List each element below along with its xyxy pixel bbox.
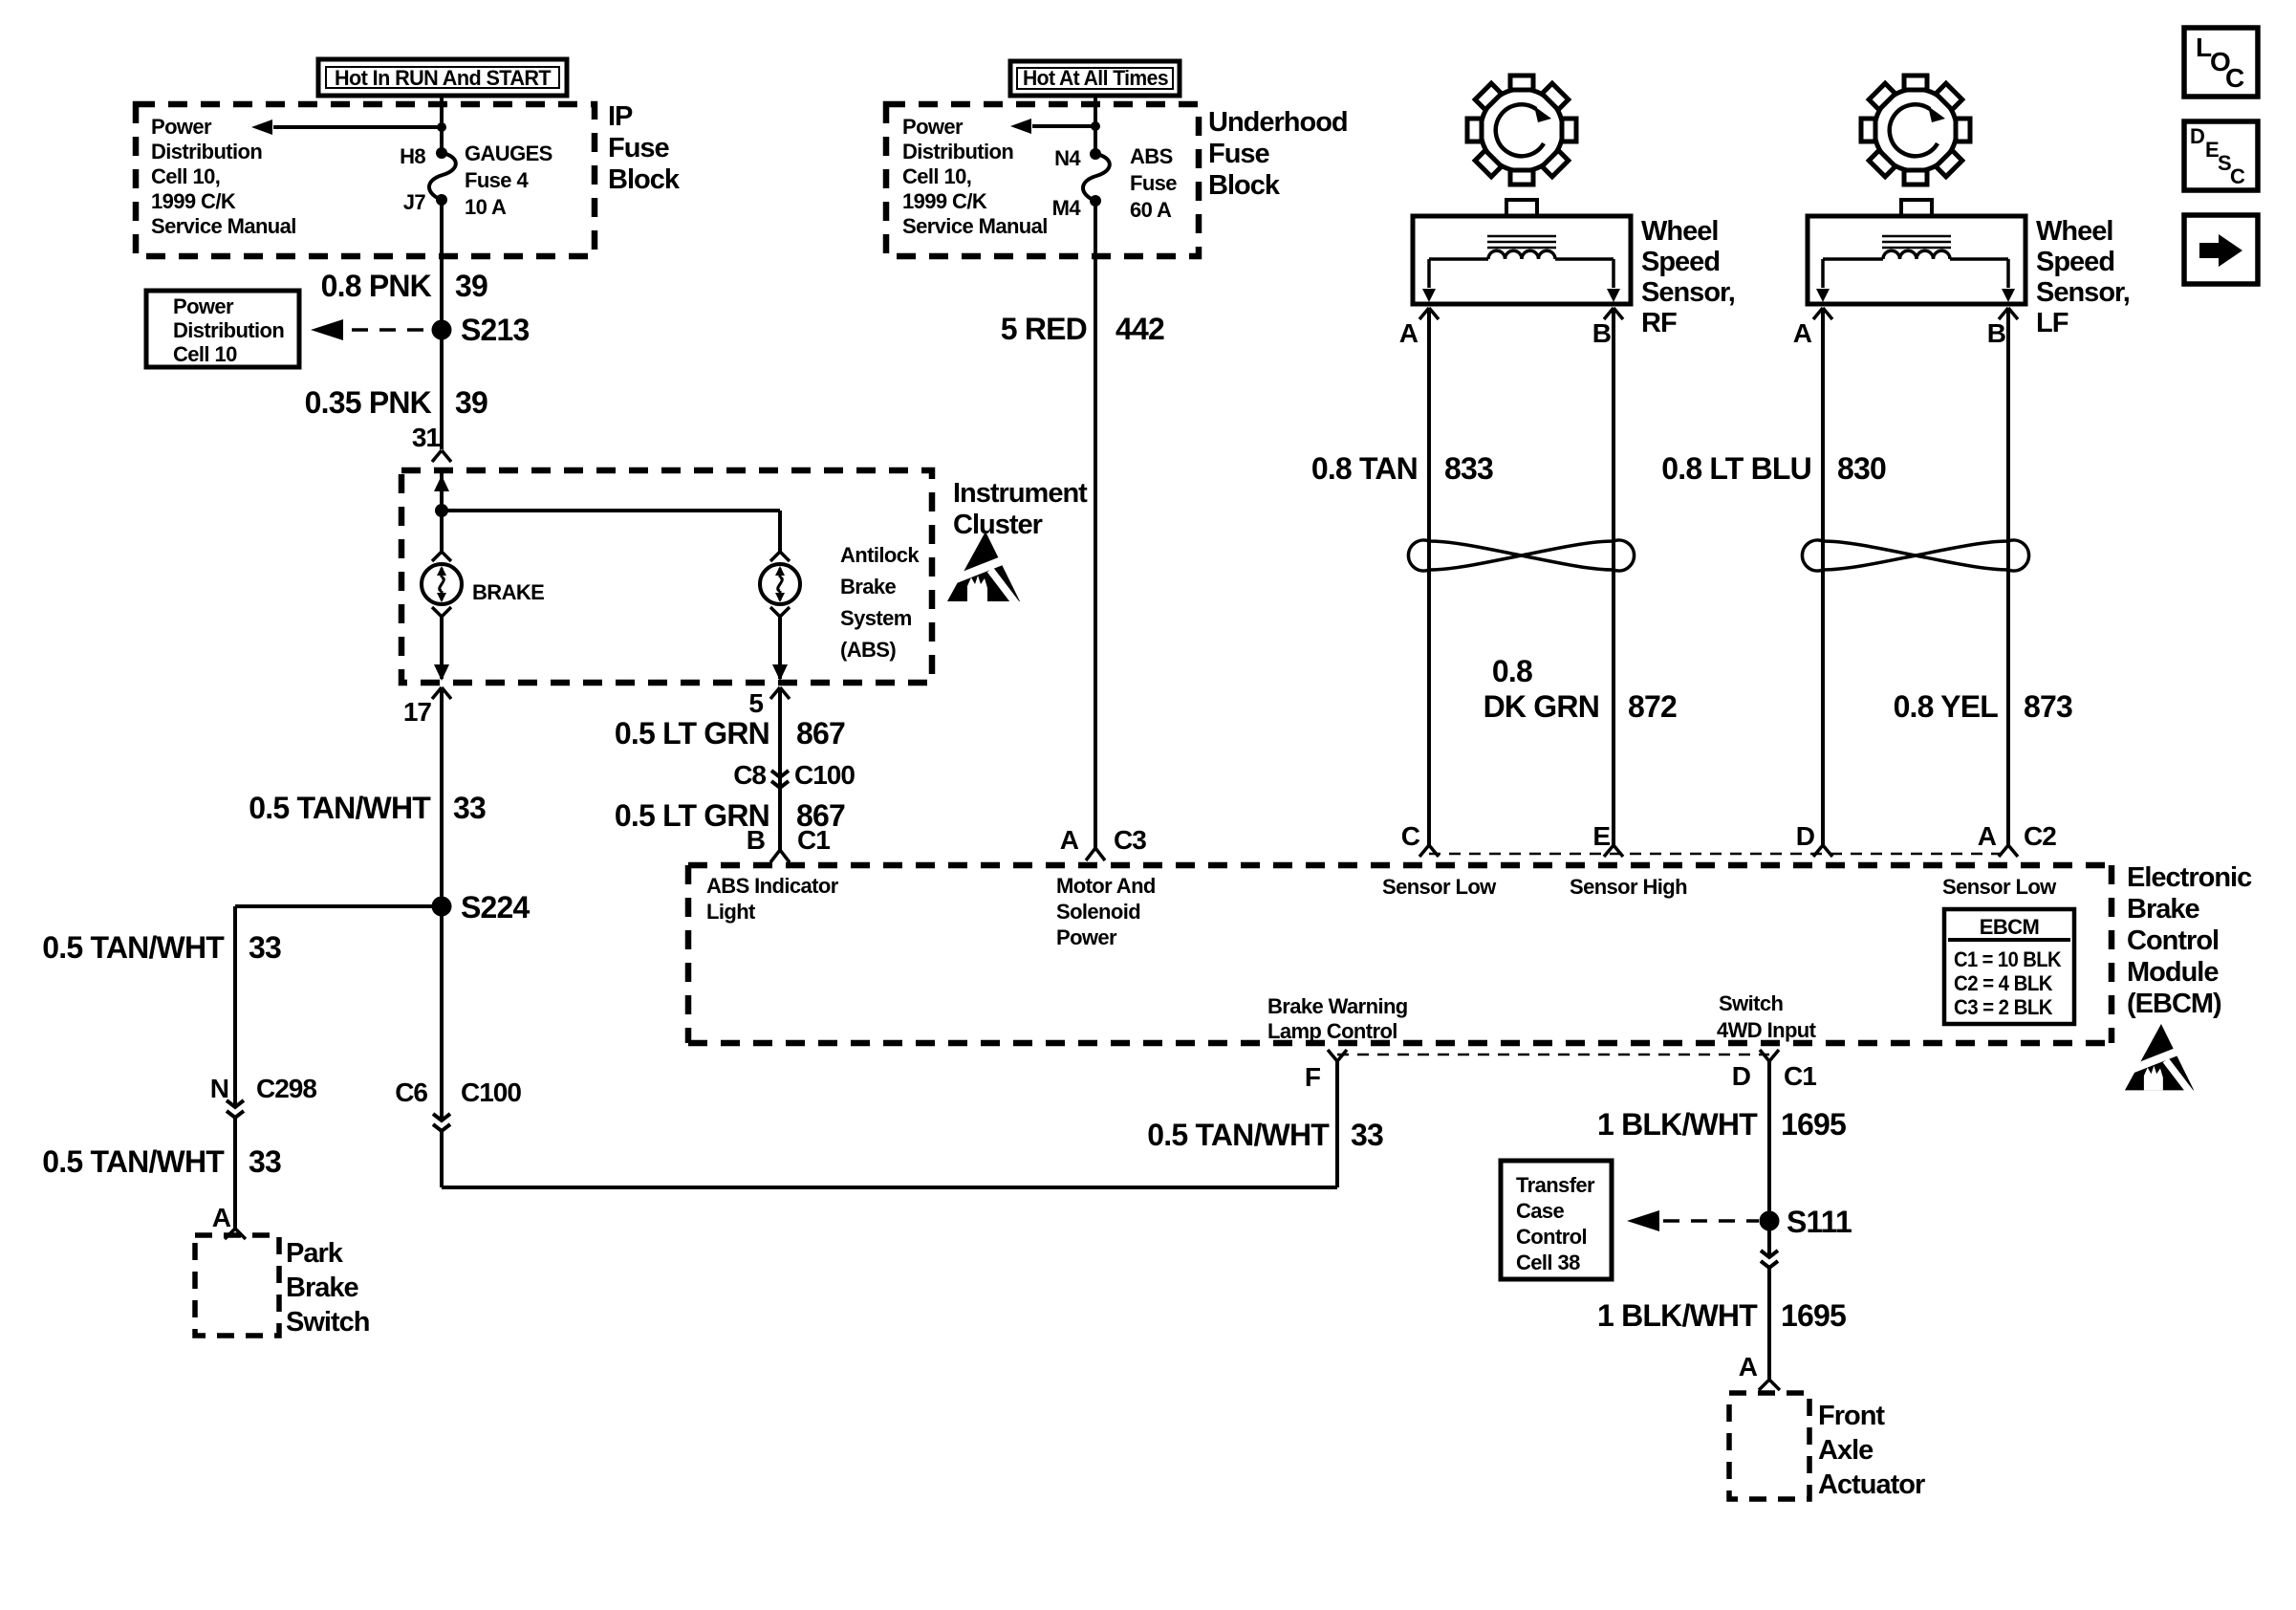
svg-text:(ABS): (ABS)	[840, 638, 896, 662]
svg-text:4WD Input: 4WD Input	[1717, 1018, 1817, 1042]
svg-text:Electronic: Electronic	[2127, 862, 2252, 893]
svg-text:IP: IP	[608, 101, 633, 132]
svg-text:System: System	[840, 606, 912, 630]
svg-text:D: D	[2190, 124, 2204, 148]
svg-text:B: B	[747, 825, 765, 855]
svg-text:EBCM: EBCM	[1980, 915, 2039, 939]
svg-text:BRAKE: BRAKE	[472, 580, 544, 604]
svg-text:ABS: ABS	[1130, 144, 1173, 168]
svg-text:Brake Warning: Brake Warning	[1267, 994, 1408, 1018]
svg-text:0.5 TAN/WHT: 0.5 TAN/WHT	[42, 1144, 225, 1179]
svg-text:Distribution: Distribution	[902, 140, 1013, 163]
svg-text:0.5 TAN/WHT: 0.5 TAN/WHT	[42, 930, 225, 965]
svg-text:Hot In RUN And START: Hot In RUN And START	[335, 66, 552, 90]
svg-text:Sensor Low: Sensor Low	[1942, 875, 2057, 899]
svg-text:Lamp Control: Lamp Control	[1267, 1019, 1397, 1043]
svg-text:Cell 10,: Cell 10,	[902, 164, 971, 188]
svg-text:33: 33	[453, 791, 486, 825]
svg-text:A: A	[1060, 825, 1079, 855]
svg-text:S: S	[2218, 151, 2231, 175]
svg-text:C1: C1	[797, 825, 830, 855]
svg-text:872: 872	[1628, 689, 1677, 724]
svg-text:1999 C/K: 1999 C/K	[151, 189, 236, 213]
svg-text:C3: C3	[1114, 825, 1146, 855]
svg-text:S224: S224	[461, 890, 531, 925]
svg-text:Front: Front	[1818, 1401, 1885, 1431]
svg-text:LF: LF	[2036, 308, 2069, 338]
svg-text:Speed: Speed	[1641, 247, 1720, 277]
svg-text:0.8 TAN: 0.8 TAN	[1311, 451, 1418, 486]
svg-text:C2 = 4 BLK: C2 = 4 BLK	[1954, 971, 2053, 995]
svg-text:33: 33	[1351, 1118, 1383, 1152]
svg-text:S213: S213	[461, 313, 530, 347]
svg-text:Switch: Switch	[1719, 991, 1783, 1015]
svg-text:Actuator: Actuator	[1818, 1469, 1925, 1500]
svg-text:Antilock: Antilock	[840, 543, 920, 567]
svg-text:C298: C298	[256, 1074, 316, 1103]
svg-text:C100: C100	[794, 760, 855, 790]
svg-text:C3 = 2 BLK: C3 = 2 BLK	[1954, 995, 2053, 1019]
svg-text:Block: Block	[608, 164, 681, 195]
svg-text:C1: C1	[1784, 1061, 1816, 1091]
svg-text:A: A	[1978, 821, 1997, 851]
svg-text:C: C	[1401, 821, 1420, 851]
svg-text:10 A: 10 A	[465, 195, 507, 219]
svg-text:H8: H8	[400, 144, 425, 168]
svg-text:Fuse: Fuse	[1130, 171, 1177, 195]
svg-text:Light: Light	[706, 900, 756, 924]
svg-text:Distribution: Distribution	[151, 140, 262, 163]
svg-text:Park: Park	[286, 1238, 344, 1269]
svg-text:E: E	[2205, 138, 2219, 162]
svg-text:Sensor High: Sensor High	[1570, 875, 1687, 899]
svg-text:C6: C6	[395, 1077, 427, 1107]
svg-text:C: C	[2225, 63, 2244, 93]
svg-text:Power: Power	[173, 294, 234, 318]
svg-text:60 A: 60 A	[1130, 198, 1172, 222]
svg-text:Underhood: Underhood	[1208, 107, 1348, 138]
svg-text:Power: Power	[151, 115, 212, 139]
svg-text:830: 830	[1837, 451, 1886, 486]
svg-text:Case: Case	[1516, 1199, 1565, 1223]
svg-text:F: F	[1305, 1062, 1321, 1092]
svg-text:Brake: Brake	[286, 1273, 358, 1303]
svg-text:Control: Control	[1516, 1225, 1587, 1249]
svg-text:(EBCM): (EBCM)	[2127, 989, 2221, 1019]
svg-text:Block: Block	[1208, 170, 1281, 201]
svg-text:M4: M4	[1052, 196, 1082, 220]
svg-text:39: 39	[455, 269, 487, 303]
svg-text:5 RED: 5 RED	[1001, 312, 1087, 346]
svg-text:J7: J7	[403, 190, 426, 214]
svg-text:C2: C2	[2024, 821, 2056, 851]
svg-text:0.5 TAN/WHT: 0.5 TAN/WHT	[249, 791, 431, 825]
svg-text:0.5 LT GRN: 0.5 LT GRN	[615, 716, 769, 751]
svg-text:5: 5	[748, 688, 763, 718]
svg-text:0.8: 0.8	[1492, 654, 1532, 688]
svg-text:Speed: Speed	[2036, 247, 2114, 277]
svg-text:1695: 1695	[1781, 1298, 1846, 1333]
svg-text:867: 867	[796, 716, 845, 751]
svg-text:E: E	[1592, 821, 1610, 851]
svg-text:Module: Module	[2127, 957, 2219, 988]
svg-text:B: B	[1592, 318, 1611, 348]
svg-text:442: 442	[1116, 312, 1164, 346]
svg-text:17: 17	[403, 697, 432, 727]
svg-text:1695: 1695	[1781, 1107, 1846, 1142]
svg-text:A: A	[1739, 1352, 1758, 1382]
svg-text:Solenoid: Solenoid	[1056, 900, 1140, 924]
svg-text:Cell 10,: Cell 10,	[151, 164, 220, 188]
svg-text:Distribution: Distribution	[173, 318, 284, 342]
svg-text:Cell 38: Cell 38	[1516, 1251, 1580, 1274]
svg-text:N: N	[210, 1074, 228, 1103]
svg-text:C100: C100	[461, 1077, 521, 1107]
svg-text:RF: RF	[1641, 308, 1677, 338]
svg-text:ABS Indicator: ABS Indicator	[706, 874, 839, 898]
svg-text:Power: Power	[1056, 925, 1117, 949]
svg-text:Sensor,: Sensor,	[1641, 277, 1735, 308]
svg-text:Sensor Low: Sensor Low	[1382, 875, 1497, 899]
svg-text:Brake: Brake	[2127, 894, 2199, 925]
svg-text:1999 C/K: 1999 C/K	[902, 189, 987, 213]
svg-text:C1 = 10 BLK: C1 = 10 BLK	[1954, 947, 2062, 971]
svg-text:Service Manual: Service Manual	[902, 214, 1048, 238]
svg-text:0.5 TAN/WHT: 0.5 TAN/WHT	[1147, 1118, 1330, 1152]
svg-text:31: 31	[412, 423, 441, 452]
svg-text:Instrument: Instrument	[953, 478, 1088, 509]
svg-text:1 BLK/WHT: 1 BLK/WHT	[1597, 1298, 1758, 1333]
svg-text:D: D	[1796, 821, 1815, 851]
svg-text:Wheel: Wheel	[1641, 216, 1718, 247]
svg-text:0.8 LT BLU: 0.8 LT BLU	[1661, 451, 1811, 486]
svg-text:B: B	[1987, 318, 2005, 348]
svg-text:Fuse: Fuse	[1208, 139, 1270, 169]
svg-text:Axle: Axle	[1818, 1435, 1874, 1466]
svg-text:Cluster: Cluster	[953, 510, 1043, 540]
svg-text:Hot At All Times: Hot At All Times	[1023, 66, 1168, 90]
svg-text:33: 33	[249, 1144, 281, 1179]
svg-text:C8: C8	[733, 760, 766, 790]
svg-text:D: D	[1732, 1061, 1751, 1091]
svg-text:0.8 YEL: 0.8 YEL	[1894, 689, 1999, 724]
svg-text:N4: N4	[1054, 146, 1081, 170]
svg-text:33: 33	[249, 930, 281, 965]
svg-text:C: C	[2230, 164, 2245, 188]
svg-text:DK GRN: DK GRN	[1484, 689, 1599, 724]
svg-text:Sensor,: Sensor,	[2036, 277, 2130, 308]
svg-text:Power: Power	[902, 115, 964, 139]
svg-text:Switch: Switch	[286, 1307, 369, 1338]
svg-text:Motor And: Motor And	[1056, 874, 1156, 898]
svg-text:Brake: Brake	[840, 575, 897, 598]
svg-text:Transfer: Transfer	[1516, 1173, 1595, 1197]
svg-text:0.35 PNK: 0.35 PNK	[305, 385, 432, 420]
svg-text:S111: S111	[1787, 1205, 1852, 1239]
svg-text:0.8 PNK: 0.8 PNK	[321, 269, 432, 303]
svg-text:1 BLK/WHT: 1 BLK/WHT	[1597, 1107, 1758, 1142]
svg-text:873: 873	[2024, 689, 2072, 724]
svg-text:A: A	[1793, 318, 1812, 348]
svg-text:39: 39	[455, 385, 487, 420]
svg-text:A: A	[1399, 318, 1419, 348]
svg-text:Wheel: Wheel	[2036, 216, 2112, 247]
svg-text:833: 833	[1444, 451, 1493, 486]
svg-text:A: A	[212, 1203, 231, 1232]
svg-text:Cell 10: Cell 10	[173, 342, 237, 366]
svg-text:Fuse 4: Fuse 4	[465, 168, 529, 192]
svg-text:GAUGES: GAUGES	[465, 141, 552, 165]
svg-text:Service Manual: Service Manual	[151, 214, 296, 238]
svg-text:Control: Control	[2127, 925, 2219, 956]
svg-text:Fuse: Fuse	[608, 133, 670, 163]
